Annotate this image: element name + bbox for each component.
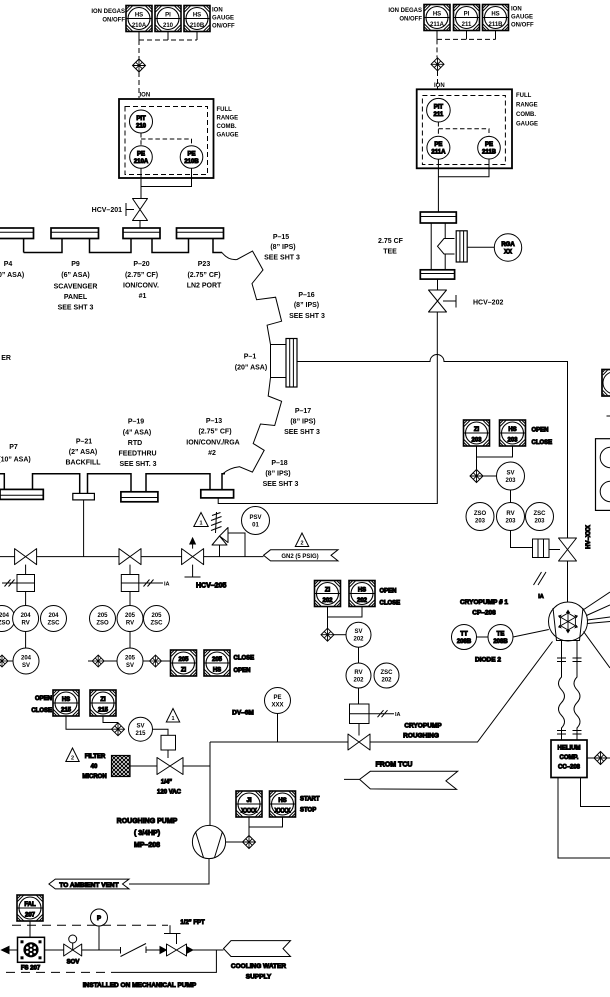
svg-text:204: 204 (0, 613, 10, 619)
wire (358, 688, 360, 704)
svg-text:HS: HS (491, 12, 499, 18)
svg-text:PE: PE (434, 142, 442, 148)
svg-text:ZSO: ZSO (96, 621, 109, 627)
label P-16 (289, 292, 325, 320)
wire (334, 634, 346, 636)
wire FAL to FS (29, 921, 31, 937)
label OPEN CLOSE (532, 428, 553, 447)
wires to diamond (477, 447, 513, 470)
sensor PE-210B (180, 146, 203, 169)
wire roughing header (210, 642, 553, 743)
svg-text:GN2 (5 PSIG): GN2 (5 PSIG) (281, 554, 318, 560)
svg-text:211A: 211A (431, 150, 446, 156)
flex disconnect (121, 944, 161, 957)
bubble RV-202 (346, 663, 371, 688)
svg-text:CLOSE: CLOSE (380, 601, 401, 607)
wire filter to valve (130, 765, 157, 767)
port P-13 flange (201, 490, 234, 498)
svg-text:210: 210 (163, 23, 174, 29)
dashed internal links (141, 133, 192, 146)
valve 204 (15, 549, 37, 565)
svg-text:TEE: TEE (383, 249, 397, 256)
svg-text:P–1: P–1 (244, 354, 257, 361)
svg-text:208B: 208B (457, 639, 472, 645)
svg-text:CC–208: CC–208 (558, 765, 581, 771)
svg-text:205: 205 (212, 657, 223, 663)
logic diamond (594, 752, 607, 765)
svg-text:ZSC: ZSC (48, 621, 61, 627)
wire relief outlet to GN2 line (220, 533, 246, 557)
wire P-21 backfill drop (83, 500, 85, 557)
solenoid valve SOV (64, 935, 82, 966)
svg-text:RV: RV (21, 621, 29, 627)
arrow supply left (2, 946, 18, 953)
flag COOLING WATER SUPPLY (224, 941, 291, 981)
port P4 flange (0, 228, 34, 239)
svg-text:FAL: FAL (24, 902, 36, 908)
svg-text:TT: TT (460, 632, 468, 638)
svg-text:GAUGE: GAUGE (217, 133, 239, 139)
logic diamond (243, 836, 256, 849)
instrument air (369, 710, 401, 718)
svg-text:SV: SV (22, 663, 30, 669)
valve 1/2 FPT (164, 925, 187, 956)
wire valve to roughing riser (183, 765, 210, 767)
sensor PE-211B (478, 136, 501, 159)
svg-text:(2” ASA): (2” ASA) (69, 449, 98, 456)
svg-text:START: START (300, 797, 320, 803)
svg-text:ION: ION (511, 7, 522, 13)
port P23 flange (177, 228, 224, 239)
gauge enclosure (119, 99, 214, 178)
svg-text:RTD: RTD (128, 440, 142, 447)
svg-text:205: 205 (125, 613, 136, 619)
svg-text:P–21: P–21 (76, 439, 92, 446)
svg-text:SV: SV (354, 629, 362, 635)
indicator PI-210 (155, 6, 181, 32)
actuator 204 (17, 565, 35, 592)
wire (510, 490, 512, 503)
wire PE-XXX tap (277, 714, 279, 743)
dashed signal lines (437, 31, 496, 89)
svg-text:ZI: ZI (181, 668, 187, 674)
flow arrow (187, 947, 193, 954)
svg-text:2: 2 (71, 756, 74, 762)
svg-text:PSV: PSV (249, 515, 261, 521)
svg-text:ION: ION (212, 8, 223, 14)
bubble SV-215 (129, 717, 153, 741)
svg-text:(2.75” CF): (2.75” CF) (187, 272, 220, 279)
svg-text:PIT: PIT (136, 116, 146, 122)
bubble ZSC-205 (144, 606, 170, 632)
svg-text:1/4”: 1/4” (161, 780, 172, 786)
logic diamond (0, 655, 13, 667)
svg-text:ZSC: ZSC (381, 670, 394, 676)
dashed signal lines to gauge (139, 32, 197, 99)
wire HS-215 down (66, 716, 112, 729)
solenoid box HV-XXX (533, 539, 550, 558)
svg-text:203: 203 (471, 438, 482, 444)
svg-text:(2.75” CF): (2.75” CF) (125, 272, 158, 279)
bubble RV-203 (497, 503, 525, 531)
wire to RGA (467, 246, 494, 248)
svg-text:SEE SHT 3: SEE SHT 3 (289, 313, 325, 320)
instrument air to 205 (139, 580, 170, 588)
svg-text:RV: RV (126, 621, 134, 627)
svg-text:P–17: P–17 (295, 408, 311, 415)
svg-text:203: 203 (505, 519, 516, 525)
wire return drop (120, 950, 216, 972)
svg-text:RANGE: RANGE (516, 103, 538, 109)
svg-text:IA: IA (395, 712, 401, 718)
bubble ZSO-204 (0, 606, 15, 632)
svg-text:FILTER: FILTER (85, 754, 106, 760)
svg-text:ION DEGAS: ION DEGAS (388, 8, 422, 14)
svg-text:HELIUM: HELIUM (558, 746, 581, 752)
svg-text:SOV: SOV (67, 960, 80, 966)
svg-text:P–16: P–16 (298, 292, 314, 299)
bubble ZSC-202 (374, 663, 399, 688)
svg-text:HCV–205: HCV–205 (196, 583, 226, 590)
wire (358, 724, 360, 736)
label P-1 (235, 354, 267, 372)
label FILTER 40 MICRON (82, 754, 106, 780)
port P-21 flange (73, 493, 95, 500)
svg-text:203: 203 (507, 438, 518, 444)
flag GN2 (5 PSIG) (264, 550, 339, 561)
label OPEN CLOSE (31, 696, 52, 714)
wire (358, 647, 360, 663)
svg-text:(4” ASA): (4” ASA) (123, 430, 152, 437)
logic diamond (431, 58, 444, 71)
svg-text:PIT: PIT (434, 105, 444, 111)
analyzer RGA XX (494, 234, 521, 261)
bubble PE-XXX (265, 688, 291, 714)
svg-text:205: 205 (125, 656, 136, 662)
svg-text:HS: HS (278, 798, 286, 804)
svg-text:SEE SHT 3: SEE SHT 3 (58, 305, 94, 312)
svg-text:202: 202 (381, 678, 392, 684)
svg-text:210B: 210B (184, 159, 199, 165)
svg-text:XX: XX (504, 250, 512, 256)
label FULL RANGE COMB. GAUGE (217, 107, 239, 139)
bubble ZSO-203 (466, 503, 494, 531)
hand switch HS-203 (500, 420, 526, 446)
flow switch FS-207 (18, 937, 45, 971)
flag TO AMBIENT VENT (49, 879, 129, 889)
instrument panel (clipped) (596, 439, 610, 511)
solenoid box (161, 735, 176, 750)
wire main pipe (0, 556, 264, 558)
svg-text:202: 202 (357, 598, 368, 604)
actuator 205 (121, 565, 139, 592)
wire (607, 757, 610, 759)
svg-text:215: 215 (98, 708, 109, 714)
svg-text:MP–208: MP–208 (134, 842, 160, 849)
svg-text:ZSC: ZSC (151, 621, 164, 627)
svg-text:HS: HS (193, 13, 201, 19)
valve HCV-201 (133, 199, 148, 221)
tee side outlet (438, 239, 455, 255)
bubble PSV-01 (242, 507, 270, 535)
svg-text:ION DEGAS: ION DEGAS (91, 9, 125, 15)
label CRYOPUMP ROUGHING (403, 723, 442, 740)
svg-text:PE: PE (187, 152, 195, 158)
svg-text:1: 1 (171, 716, 174, 722)
svg-text:( 3/4HP): ( 3/4HP) (134, 830, 160, 837)
svg-text:ON/OFF: ON/OFF (399, 17, 422, 23)
wire SV-215 to solenoid (153, 729, 169, 735)
svg-text:ZSO: ZSO (0, 621, 10, 627)
wire gauge outlets (141, 168, 192, 198)
svg-text:P–19: P–19 (128, 419, 144, 426)
svg-text:(10” ASA): (10” ASA) (0, 272, 24, 279)
logic diamond (470, 470, 483, 483)
label P-19 RTD feedthru (118, 419, 156, 469)
svg-text:PI: PI (464, 12, 470, 18)
logic diamond (321, 628, 334, 641)
svg-text:BACKFILL: BACKFILL (66, 460, 102, 467)
bubble TE-208B (488, 625, 513, 650)
svg-text:(20” ASA): (20” ASA) (235, 365, 267, 372)
svg-text:INSTALLED ON MECHANICAL PUMP: INSTALLED ON MECHANICAL PUMP (83, 982, 197, 989)
wire chamber wall upper (222, 251, 282, 345)
hand switch HS-211A (424, 5, 450, 31)
wire (139, 221, 141, 229)
wire pump exhaust (129, 859, 209, 884)
valve HCV-205 (182, 549, 204, 565)
label 2.75 CF TEE (378, 238, 404, 256)
wire (549, 549, 560, 551)
logic diamond right (143, 655, 171, 667)
svg-text:205: 205 (178, 657, 189, 663)
label P9 scavenger panel (54, 261, 98, 312)
bubble ZSC-203 (526, 503, 554, 531)
svg-text:RANGE: RANGE (217, 116, 239, 122)
svg-text:CP–208: CP–208 (472, 610, 496, 617)
gauge P (91, 909, 108, 950)
logic diamond left (88, 655, 118, 667)
svg-text:ZSO: ZSO (474, 511, 487, 517)
svg-text:P4: P4 (4, 261, 13, 268)
svg-text:01: 01 (252, 523, 259, 529)
wire to diamond (587, 757, 594, 759)
wire (25, 631, 27, 649)
svg-text:ION/CONV./RGA: ION/CONV./RGA (186, 440, 239, 447)
svg-text:SCAVENGER: SCAVENGER (54, 284, 98, 291)
svg-text:ZI: ZI (325, 588, 331, 594)
flange side (456, 231, 467, 262)
svg-text:MICRON: MICRON (82, 774, 106, 780)
label P4 (0, 261, 24, 279)
hand switch HS-210B (184, 6, 210, 32)
port P9 flange (51, 228, 99, 239)
svg-text:PE: PE (137, 152, 145, 158)
wires to diamond (328, 607, 363, 628)
svg-text:RV: RV (354, 670, 362, 676)
svg-text:211B: 211B (488, 22, 503, 28)
svg-text:215: 215 (61, 708, 72, 714)
svg-text:210B: 210B (190, 23, 205, 29)
svg-text:FULL: FULL (217, 107, 233, 113)
svg-text:(8” IPS): (8” IPS) (294, 302, 319, 309)
bubble ZSO-205 (90, 606, 116, 632)
svg-text:P–13: P–13 (206, 418, 222, 425)
svg-text:ON/OFF: ON/OFF (102, 18, 125, 24)
svg-text:P–15: P–15 (273, 234, 289, 241)
helium line return (573, 641, 582, 740)
dashed skid boundary top (12, 924, 168, 926)
wire (129, 631, 131, 649)
instrument air to 204 (2, 580, 17, 587)
dashed internal links (438, 122, 489, 136)
label CRYOPUMP #1 CP-208 (460, 599, 508, 617)
valve HV-XXX (559, 538, 577, 561)
label 1/4" 120 VAC (157, 780, 182, 796)
alarm FAL-207 (17, 895, 43, 921)
label ROUGHING PUMP (3/4HP) MP-208 (117, 818, 178, 849)
svg-text:RV: RV (506, 511, 514, 517)
svg-text:211B: 211B (482, 150, 497, 156)
wire valve to cryopump (567, 561, 569, 602)
svg-text:FULL: FULL (516, 93, 532, 99)
svg-text:203: 203 (534, 519, 545, 525)
port P-1 flange (271, 345, 287, 378)
svg-text:215: 215 (135, 731, 146, 737)
instrument air slashes (534, 572, 547, 600)
wire gauge outlets (438, 159, 489, 212)
flange tee top (420, 212, 456, 223)
svg-text:GAUGE: GAUGE (212, 16, 234, 22)
vent arrow HCV-205 (190, 538, 196, 549)
label P-17 (284, 408, 320, 436)
filter 40 micron (112, 756, 131, 777)
svg-text:SUPPLY: SUPPLY (246, 974, 272, 981)
svg-text:RGA: RGA (501, 242, 515, 248)
label ION GAUGE ON/OFF (511, 7, 534, 29)
wire compressor outlet right (581, 778, 610, 807)
svg-text:HS: HS (62, 697, 70, 703)
svg-text:207: 207 (25, 913, 36, 919)
svg-text:CRYOPUMP # 1: CRYOPUMP # 1 (460, 599, 508, 606)
svg-text:GAUGE: GAUGE (516, 122, 538, 128)
wire chamber wall lower (223, 378, 282, 474)
wire (167, 750, 169, 758)
wire TT to TE (477, 636, 489, 638)
label P-18 (263, 460, 299, 488)
note triangle 2 (295, 533, 308, 547)
indicator PI-211 (454, 5, 480, 31)
svg-text:P23: P23 (198, 261, 211, 268)
svg-text:202: 202 (353, 637, 364, 643)
port P-20 flange (123, 228, 160, 239)
bubble RV-205 (117, 606, 143, 632)
port P7 flange (0, 489, 43, 499)
bubble SV-202 (346, 622, 371, 647)
relief valve spring (211, 512, 222, 533)
svg-text:202: 202 (322, 598, 333, 604)
label OPEN CLOSE (380, 589, 401, 607)
svg-text:P–20: P–20 (133, 261, 149, 268)
instrument box (clipped) (602, 370, 610, 397)
svg-text:ROUGHING: ROUGHING (403, 733, 439, 740)
label P-13 ion/conv/rga #2 (186, 418, 239, 457)
position light ZI-203 (464, 420, 490, 446)
hand switch HS-211B (483, 5, 509, 31)
svg-text:208B: 208B (493, 639, 508, 645)
svg-text:(8” IPS): (8” IPS) (270, 244, 295, 251)
svg-text:TO AMBIENT VENT: TO AMBIENT VENT (59, 882, 118, 889)
svg-text:CLOSE: CLOSE (234, 656, 255, 662)
flow arrow (160, 947, 166, 954)
svg-text:210: 210 (136, 124, 147, 130)
wire RV-203 to solenoid (511, 531, 533, 548)
svg-text:STOP: STOP (300, 808, 316, 814)
svg-text:1/2” FPT: 1/2” FPT (180, 920, 205, 926)
svg-text:P: P (97, 916, 101, 922)
bubble ZSC-204 (41, 606, 67, 632)
svg-text:PE: PE (273, 695, 281, 701)
svg-text:JI: JI (246, 798, 251, 804)
wire (25, 592, 27, 607)
svg-text:HV–XXX: HV–XXX (586, 525, 592, 549)
svg-text:COMB.: COMB. (217, 124, 237, 130)
valve HCV-202 (429, 290, 447, 312)
svg-text:(10” ASA): (10” ASA) (0, 457, 31, 464)
pump MP-208 (192, 825, 225, 858)
svg-text:HS: HS (433, 12, 441, 18)
svg-text:PI: PI (165, 13, 171, 19)
svg-text:ER: ER (1, 355, 11, 362)
valve 1/4" 120VAC (157, 758, 183, 775)
wire (129, 592, 131, 607)
svg-text:ZI: ZI (474, 427, 480, 433)
wire diamond to pump (226, 841, 243, 843)
flange tee bottom (420, 270, 454, 279)
svg-text:204: 204 (21, 613, 32, 619)
label P-21 backfill (66, 439, 102, 467)
svg-text:#2: #2 (208, 450, 216, 457)
svg-text:PE: PE (485, 142, 493, 148)
svg-text:HS: HS (213, 668, 221, 674)
svg-text:XXXX: XXXX (274, 809, 290, 815)
svg-text:GAUGE: GAUGE (511, 15, 533, 21)
valve 205 (119, 549, 141, 565)
svg-text:(8” IPS): (8” IPS) (290, 419, 315, 426)
svg-text:(2.75” CF): (2.75” CF) (198, 429, 231, 436)
svg-text:ON/OFF: ON/OFF (212, 24, 235, 30)
svg-text:ION: ION (140, 93, 151, 99)
svg-text:(6” ASA): (6” ASA) (61, 272, 90, 279)
svg-text:203: 203 (475, 519, 486, 525)
svg-text:211: 211 (434, 112, 444, 118)
wire (437, 279, 439, 290)
bubble TT-208B (452, 625, 477, 650)
svg-text:P9: P9 (71, 261, 80, 268)
svg-text:CLOSE: CLOSE (31, 708, 52, 714)
svg-text:TE: TE (497, 632, 505, 638)
label ION DEGAS ON/OFF (91, 9, 125, 24)
svg-text:120 VAC: 120 VAC (157, 790, 182, 796)
wire (82, 949, 121, 951)
label P23 LN2 port (187, 261, 222, 290)
svg-text:ZI: ZI (100, 697, 106, 703)
svg-text:OPEN: OPEN (532, 428, 549, 434)
svg-text:IA: IA (164, 582, 170, 588)
svg-text:2.75 CF: 2.75 CF (378, 238, 404, 245)
svg-text:204: 204 (21, 656, 32, 662)
svg-text:203: 203 (505, 478, 516, 484)
